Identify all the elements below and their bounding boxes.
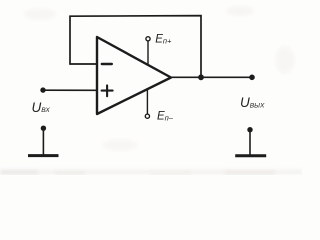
scan smudge bottom band bbox=[0, 6, 302, 175]
ground (input) bbox=[28, 126, 59, 156]
paper background bbox=[0, 0, 302, 175]
wire inverting input bbox=[70, 63, 96, 65]
wire output bbox=[171, 76, 252, 78]
wire non-inverting input bbox=[43, 89, 96, 91]
node output terminal bbox=[249, 75, 255, 81]
wire feedback loop (output to inverting input) bbox=[70, 16, 201, 76]
wire negative supply pin bbox=[146, 90, 148, 114]
op-amp inverting pin mark bbox=[102, 63, 112, 65]
wire positive supply pin bbox=[147, 41, 149, 65]
power terminal EП- bbox=[145, 114, 149, 118]
node feedback junction bbox=[198, 74, 204, 80]
node input terminal bbox=[40, 87, 45, 92]
ground (output) bbox=[235, 127, 266, 156]
op-amp non-inverting pin mark bbox=[102, 85, 113, 96]
power terminal EП+ bbox=[146, 37, 150, 41]
op-amp bbox=[97, 37, 171, 114]
